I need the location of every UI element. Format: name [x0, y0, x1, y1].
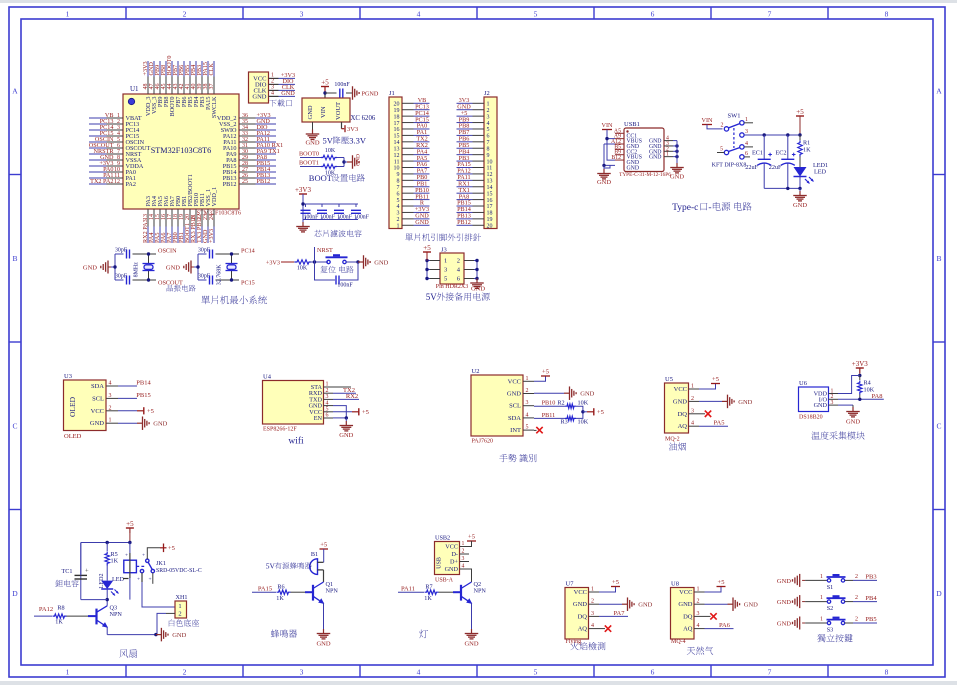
- MCU U1 designator: [130, 85, 139, 93]
- svg-text:4: 4: [591, 623, 594, 629]
- push button S2 to PB4: [777, 595, 877, 612]
- svg-text:+3V3: +3V3: [266, 260, 280, 267]
- connector XH1 fan socket: [166, 594, 188, 618]
- svg-text:+5: +5: [168, 545, 175, 552]
- svg-text:3: 3: [109, 393, 112, 399]
- net PB11 with pull-up resistor R3 10K: [534, 412, 589, 426]
- temperature sensor U6 DS18B20: [799, 380, 839, 421]
- svg-text:USB: USB: [437, 557, 443, 569]
- svg-text:B: B: [12, 254, 17, 263]
- ground (type-C right): [670, 162, 684, 181]
- svg-text:2: 2: [457, 258, 460, 265]
- svg-text:RX2: RX2: [346, 393, 358, 400]
- svg-text:GND: GND: [305, 140, 319, 147]
- svg-text:1: 1: [745, 117, 748, 123]
- svg-text:10K: 10K: [325, 148, 336, 154]
- svg-text:R2: R2: [557, 400, 564, 407]
- svg-text:SCL: SCL: [509, 403, 521, 410]
- download port label 下载口: [269, 99, 292, 106]
- svg-text:TC1: TC1: [61, 568, 72, 575]
- svg-text:GND: GND: [471, 286, 485, 293]
- svg-text:A: A: [936, 86, 942, 95]
- USB type-C connector USB1 body: [611, 121, 671, 178]
- svg-text:12: 12: [114, 179, 120, 185]
- svg-text:3V3: 3V3: [347, 126, 358, 133]
- type-C right GND pins 1-4: [664, 136, 679, 162]
- svg-text:NPN: NPN: [110, 611, 123, 618]
- net PA6 (U8 pin 4): [705, 622, 734, 629]
- svg-text:JK1: JK1: [156, 560, 166, 567]
- svg-text:8: 8: [487, 146, 490, 152]
- svg-text:GND: GND: [573, 601, 587, 608]
- svg-text:19: 19: [394, 108, 400, 114]
- label wifi: [288, 436, 304, 447]
- U8 pin 3 no-connect: [705, 613, 717, 619]
- svg-text:AQ: AQ: [678, 423, 688, 430]
- svg-text:D: D: [12, 589, 18, 598]
- power ground (gesture GND): [534, 386, 595, 400]
- svg-text:PA2: PA2: [126, 181, 136, 188]
- svg-text:1: 1: [666, 152, 669, 158]
- svg-text:STM32F103C8T6: STM32F103C8T6: [151, 146, 212, 155]
- svg-text:SCL: SCL: [92, 395, 104, 402]
- svg-text:GND: GND: [793, 202, 807, 209]
- svg-text:4: 4: [271, 91, 274, 97]
- svg-text:GND: GND: [627, 165, 640, 171]
- svg-text:+5: +5: [362, 409, 369, 416]
- svg-text:10: 10: [487, 159, 493, 165]
- label 晶振电路: [167, 285, 196, 292]
- svg-text:PA7: PA7: [614, 610, 626, 617]
- svg-text:R7: R7: [425, 583, 432, 590]
- svg-text:INT: INT: [510, 427, 521, 434]
- svg-text:PA12: PA12: [39, 606, 53, 613]
- svg-text:100nF: 100nF: [304, 214, 320, 220]
- svg-text:9: 9: [397, 172, 400, 178]
- svg-text:U2: U2: [472, 368, 480, 375]
- svg-text:GND: GND: [580, 391, 594, 398]
- svg-text:1: 1: [178, 603, 181, 610]
- power +5 port (supply rail): [796, 108, 804, 137]
- svg-text:GND: GND: [445, 566, 459, 573]
- svg-text:11: 11: [487, 166, 493, 172]
- svg-text:R4: R4: [864, 380, 871, 387]
- svg-text:DQ: DQ: [683, 613, 693, 620]
- svg-text:1: 1: [820, 595, 823, 601]
- svg-text:4: 4: [417, 668, 421, 677]
- relay JK1 coil: [124, 543, 152, 600]
- power circuit bottom bus: [764, 187, 802, 190]
- svg-text:GND: GND: [172, 632, 186, 639]
- svg-text:S2: S2: [827, 605, 834, 612]
- svg-text:+5: +5: [612, 579, 619, 586]
- svg-text:5: 5: [397, 198, 400, 204]
- svg-text:15: 15: [394, 134, 400, 140]
- switch output wire to +5 rail: [744, 133, 800, 136]
- switch SW1 KFT DIP-8X8: [712, 113, 753, 169]
- svg-text:100nF: 100nF: [337, 214, 353, 220]
- svg-text:PA15: PA15: [258, 586, 272, 593]
- svg-text:PB14: PB14: [136, 380, 151, 387]
- svg-text:15: 15: [487, 191, 493, 197]
- label 单片机引脚外引排针: [405, 233, 481, 241]
- svg-text:GND: GND: [339, 432, 353, 439]
- wifi EN wire to ground: [333, 416, 348, 421]
- svg-text:9: 9: [487, 153, 490, 159]
- push button S1 to PB3: [777, 574, 877, 591]
- svg-text:17: 17: [487, 204, 493, 210]
- svg-text:PB10: PB10: [542, 400, 556, 407]
- svg-text:J2: J2: [484, 90, 490, 97]
- svg-text:1K: 1K: [55, 619, 63, 626]
- svg-text:4: 4: [697, 623, 700, 629]
- ground (8MHz crystal): [83, 261, 111, 274]
- svg-text:2: 2: [721, 123, 724, 129]
- resistor R4 10K pull-up: [858, 376, 875, 400]
- svg-text:1K: 1K: [424, 595, 432, 602]
- net TX2 (wifi RXD): [333, 387, 356, 394]
- svg-text:12: 12: [487, 172, 493, 178]
- tantalum capacitor TC1: [61, 543, 89, 600]
- svg-text:PA6: PA6: [719, 622, 731, 629]
- svg-text:Pin HDR2X3: Pin HDR2X3: [436, 284, 469, 290]
- svg-text:XH1: XH1: [176, 594, 188, 601]
- svg-text:OSCIN: OSCIN: [158, 248, 177, 255]
- relay JK1 switch contact SRD-05VDC-SL-C: [136, 544, 201, 584]
- USB2 GND wire to collector: [469, 569, 472, 582]
- svg-text:USB-A: USB-A: [435, 578, 454, 584]
- svg-text:PAJ7620: PAJ7620: [472, 439, 493, 445]
- svg-text:R1: R1: [803, 140, 810, 147]
- wifi module U4 ESP8266-12F: [263, 374, 334, 433]
- svg-text:1K: 1K: [111, 558, 119, 565]
- svg-text:PB5: PB5: [865, 616, 876, 623]
- svg-text:2: 2: [183, 668, 187, 677]
- svg-text:PA5: PA5: [714, 420, 725, 427]
- svg-text:SDA: SDA: [508, 415, 521, 422]
- svg-text:SWCLK: SWCLK: [211, 96, 218, 118]
- svg-text:VCC: VCC: [445, 544, 458, 551]
- svg-text:1: 1: [697, 587, 700, 593]
- svg-text:14: 14: [394, 140, 400, 146]
- svg-text:PA8: PA8: [872, 393, 883, 400]
- svg-text:wifi: wifi: [288, 436, 304, 447]
- svg-text:2: 2: [526, 388, 529, 394]
- svg-text:+5: +5: [542, 369, 549, 376]
- svg-text:4: 4: [487, 121, 490, 127]
- electrolytic capacitor EC2 22uF: [769, 135, 796, 188]
- svg-text:30pF: 30pF: [115, 274, 128, 280]
- svg-text:8: 8: [397, 179, 400, 185]
- power +5 (gesture VCC): [534, 369, 550, 382]
- svg-text:2: 2: [855, 617, 858, 623]
- svg-text:S1: S1: [827, 584, 834, 591]
- svg-text:4: 4: [745, 141, 748, 147]
- svg-text:18: 18: [487, 211, 493, 217]
- svg-text:GND: GND: [649, 155, 662, 161]
- fan ground bus: [107, 633, 157, 636]
- power +5 (OLED VCC): [118, 407, 154, 415]
- svg-text:GND: GND: [670, 174, 684, 181]
- svg-text:4: 4: [326, 400, 329, 406]
- svg-text:EC2: EC2: [775, 150, 786, 157]
- power ground PGND (regulator): [353, 86, 379, 100]
- svg-text:GND: GND: [777, 621, 791, 628]
- label 单片机最小系统: [201, 296, 267, 305]
- OLED display module U3: [64, 373, 119, 440]
- svg-text:SDA: SDA: [91, 383, 104, 390]
- type-C ground net wires: [602, 144, 615, 169]
- svg-text:GND: GND: [252, 93, 266, 100]
- svg-text:3: 3: [326, 394, 329, 400]
- svg-text:BOOT1: BOOT1: [299, 160, 319, 167]
- ground (backup header): [470, 279, 485, 293]
- svg-text:3: 3: [300, 668, 304, 677]
- label 手势识别: [499, 454, 536, 462]
- svg-text:2: 2: [183, 10, 187, 19]
- label 温度采集模块: [811, 431, 864, 439]
- svg-text:10K: 10K: [297, 266, 308, 272]
- svg-text:2: 2: [462, 549, 465, 555]
- svg-text:4: 4: [417, 10, 421, 19]
- power +5 (buzzer): [320, 542, 329, 563]
- svg-text:13: 13: [394, 146, 400, 152]
- svg-text:5V: 5V: [266, 562, 276, 571]
- svg-text:VCC: VCC: [674, 386, 687, 393]
- svg-text:20: 20: [487, 223, 493, 229]
- svg-text:PB12: PB12: [223, 181, 237, 188]
- power +5 (U7 VCC): [599, 579, 620, 592]
- power +5 (fan): [126, 520, 134, 543]
- power +3V3 rail for filter capacitors: [295, 186, 358, 220]
- svg-text:1: 1: [66, 668, 70, 677]
- svg-text:19: 19: [487, 217, 493, 223]
- MCU U1 STM32F103C8T6 body: [123, 94, 241, 217]
- label 5V降压3.3V: [323, 136, 367, 146]
- svg-text:S3: S3: [827, 627, 834, 634]
- net BOOT1 wire and resistor 10K: [299, 160, 344, 177]
- svg-text:GND: GND: [777, 599, 791, 606]
- svg-text:PB11: PB11: [542, 412, 556, 419]
- header J2 20-pin with net labels: [457, 90, 498, 229]
- DS18B20 VDD wire: [838, 376, 860, 394]
- svg-text:8MHz: 8MHz: [134, 262, 140, 278]
- svg-text:2: 2: [397, 217, 400, 223]
- svg-text:MQ-4: MQ-4: [671, 639, 686, 645]
- svg-text:2: 2: [487, 108, 490, 114]
- svg-text:+: +: [142, 553, 145, 559]
- svg-text:6: 6: [745, 151, 748, 157]
- svg-text:GND: GND: [281, 90, 295, 97]
- svg-text:3: 3: [444, 267, 447, 274]
- capacitor 100nF at regulator input: [323, 82, 352, 98]
- svg-text:22uF: 22uF: [745, 164, 758, 171]
- svg-text:3: 3: [591, 611, 594, 617]
- svg-text:GND: GND: [744, 602, 758, 609]
- capacitor 100nF #1: [301, 204, 320, 220]
- resistor R5 1K: [105, 543, 119, 581]
- svg-text:1: 1: [820, 574, 823, 580]
- svg-text:GND: GND: [673, 398, 687, 405]
- wifi GND wire: [333, 406, 346, 418]
- power ground (fan): [156, 628, 187, 642]
- svg-text:TYPE-C-31-M-12-16P6: TYPE-C-31-M-12-16P6: [619, 172, 671, 178]
- svg-text:5: 5: [487, 127, 490, 133]
- svg-text:KFT DIP-8X8: KFT DIP-8X8: [712, 163, 747, 169]
- svg-text:Flying: Flying: [566, 639, 582, 645]
- svg-text:PB4: PB4: [865, 595, 877, 602]
- resistor R1 1K: [798, 135, 811, 167]
- svg-text:GND: GND: [374, 260, 388, 267]
- svg-text:3: 3: [487, 114, 490, 120]
- svg-text:DQ: DQ: [578, 613, 588, 620]
- svg-text:+3V3: +3V3: [295, 186, 312, 194]
- label 芯片滤波电容: [314, 230, 361, 237]
- svg-text:SRD-05VDC-SL-C: SRD-05VDC-SL-C: [156, 568, 202, 574]
- svg-text:4: 4: [462, 564, 465, 570]
- gesture INT no-connect: [534, 427, 543, 433]
- svg-text:GND: GND: [415, 219, 429, 226]
- svg-text:1: 1: [326, 382, 329, 388]
- svg-text:2: 2: [591, 599, 594, 605]
- XH1 pin2 wire to ground bus: [157, 613, 166, 634]
- svg-text:2: 2: [855, 595, 858, 601]
- svg-text:100nF: 100nF: [320, 214, 336, 220]
- regulator VOUT wire to +3V3: [342, 122, 359, 133]
- svg-text:6: 6: [651, 668, 655, 677]
- svg-text:U1: U1: [130, 85, 139, 93]
- svg-text:VDD_1: VDD_1: [211, 187, 218, 207]
- ground (DS18B20): [846, 405, 860, 425]
- transistor Q1 NPN: [313, 581, 338, 629]
- svg-text:U7: U7: [566, 581, 575, 588]
- svg-text:37: 37: [209, 84, 215, 90]
- svg-text:GND: GND: [738, 399, 752, 406]
- svg-text:+5: +5: [126, 520, 134, 528]
- MCU U1 bottom pins 13-24 (PA3..VDD_1): [142, 174, 218, 243]
- svg-text:PA11: PA11: [401, 586, 415, 593]
- svg-text:NRST: NRST: [317, 247, 333, 254]
- svg-text:GND: GND: [356, 154, 362, 166]
- svg-text:12: 12: [394, 153, 400, 159]
- svg-text:B: B: [936, 254, 941, 263]
- label BOOT设置电路: [309, 173, 365, 183]
- svg-text:1: 1: [444, 258, 447, 265]
- capacitor 100nF #3: [334, 204, 353, 220]
- svg-text:14: 14: [487, 185, 493, 191]
- svg-text:+3V3: +3V3: [852, 360, 869, 368]
- fan left loop wire: [81, 599, 107, 601]
- ground (type-C left): [597, 169, 611, 186]
- power +5 (U8 VCC): [705, 579, 726, 592]
- net PA5 (MQ-2 AQ): [699, 420, 728, 427]
- sensor U7 body: [565, 581, 599, 646]
- svg-text:+: +: [125, 553, 128, 559]
- label 蜂鸣器: [271, 629, 297, 637]
- resistor R7 1K on PA11: [398, 583, 461, 602]
- ground (wifi): [339, 421, 353, 439]
- svg-text:PB12: PB12: [457, 219, 471, 226]
- download connector P1 body: [249, 72, 269, 103]
- svg-text:3: 3: [831, 400, 834, 406]
- label 独立按键: [817, 634, 852, 642]
- svg-text:11: 11: [394, 159, 400, 165]
- svg-text:+: +: [85, 568, 89, 575]
- power +5 port (regulator input): [321, 79, 329, 99]
- svg-text:USB1: USB1: [624, 121, 640, 128]
- svg-text:J3: J3: [441, 247, 447, 254]
- power +5 (lamp): [467, 534, 476, 547]
- backup power header J3 HDR2X3: [423, 244, 479, 290]
- svg-text:PB15: PB15: [136, 392, 150, 399]
- svg-text:J1: J1: [389, 90, 395, 97]
- svg-text:3: 3: [745, 129, 748, 135]
- svg-text:20: 20: [394, 102, 400, 108]
- svg-text:1: 1: [462, 541, 465, 547]
- svg-text:GND: GND: [777, 578, 791, 585]
- svg-text:1: 1: [397, 223, 400, 229]
- svg-text:GND: GND: [507, 391, 521, 398]
- resistor R8 1K on PA12: [34, 605, 97, 626]
- svg-text:+5: +5: [321, 79, 329, 87]
- svg-text:D: D: [936, 589, 942, 598]
- svg-text:TX2 PA2: TX2 PA2: [90, 178, 113, 185]
- svg-text:VCC: VCC: [508, 378, 521, 385]
- MCU U1 right pins 36-25 (VDD_2..PB12): [217, 112, 283, 188]
- svg-text:PB3: PB3: [865, 574, 876, 581]
- label 油烟: [669, 443, 686, 451]
- reset net NRST with pull-up resistor 10K: [266, 247, 333, 272]
- svg-text:R3: R3: [561, 418, 568, 425]
- svg-text:PGND: PGND: [362, 91, 379, 98]
- svg-text:10K: 10K: [578, 418, 589, 425]
- net VIN to VBUS pins: [602, 122, 616, 160]
- svg-text:-: -: [708, 203, 711, 213]
- transistor Q2 NPN: [461, 581, 486, 629]
- power ground (reset): [358, 255, 389, 269]
- svg-text:6: 6: [397, 191, 400, 197]
- svg-text:U5: U5: [665, 376, 673, 383]
- svg-text:3: 3: [397, 211, 400, 217]
- svg-text:GND: GND: [846, 419, 860, 426]
- reset push button: [326, 254, 359, 263]
- svg-text:16: 16: [394, 127, 400, 133]
- svg-text:BOOT: BOOT: [309, 173, 333, 183]
- svg-text:ESP8266-12F: ESP8266-12F: [263, 427, 297, 433]
- svg-text:2: 2: [855, 574, 858, 580]
- svg-text:17: 17: [394, 121, 400, 127]
- svg-text:EC1: EC1: [752, 150, 763, 157]
- svg-text:OLED: OLED: [64, 433, 82, 440]
- power ground (OLED GND): [118, 416, 168, 430]
- resistor R6 1K on PA15: [252, 583, 313, 602]
- svg-text:30pF: 30pF: [198, 248, 211, 254]
- svg-text:R8: R8: [57, 605, 64, 612]
- net PB14 (OLED SDA): [118, 380, 151, 387]
- svg-text:3: 3: [300, 10, 304, 19]
- capacitor 100nF #2: [317, 204, 336, 220]
- svg-text:6: 6: [487, 134, 490, 140]
- svg-text:3.3V: 3.3V: [349, 136, 367, 146]
- net PB15 (OLED SCL): [118, 392, 151, 399]
- svg-text:GND: GND: [638, 602, 652, 609]
- svg-text:30pF: 30pF: [115, 248, 128, 254]
- svg-text:NPN: NPN: [326, 588, 339, 595]
- svg-text:D+: D+: [450, 559, 458, 566]
- svg-text:2: 2: [697, 599, 700, 605]
- svg-text:8: 8: [885, 10, 889, 19]
- crystal Y1 8MHz with load capacitors: [111, 248, 183, 287]
